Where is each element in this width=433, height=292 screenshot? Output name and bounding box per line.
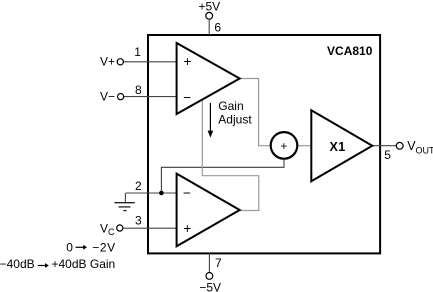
wire X1 output to VOUT terminal pin 5 [372,145,396,147]
svg-text:V+: V+ [100,55,115,69]
terminal pin 8 (V-) [118,94,124,100]
terminal pin 7 (-5V) [206,273,213,280]
ground symbol [114,193,134,211]
svg-text:+: + [183,54,191,69]
gain adjust arrow [208,103,214,138]
label control voltage range 0 to -2V [66,240,116,254]
svg-text:X1: X1 [330,140,346,154]
wire gain-control loop op-amp A2 output to op-amp A1 [202,99,258,211]
svg-text:Gain: Gain [218,99,243,113]
wire ground pin 2 to op-amp A2 [126,192,177,194]
IC boundary box U1 [148,35,380,253]
terminal pin 3 (VC) [117,225,123,231]
svg-text:+40dB Gain: +40dB Gain [52,257,116,271]
svg-text:5: 5 [384,148,391,162]
svg-text:−: − [183,186,191,201]
wire VC pin 3 to op-amp A2 [123,227,176,229]
wire V- input to op-amp A1 [124,96,176,98]
svg-text:+: + [183,221,191,236]
terminal pin 5 (VOUT) [396,142,403,149]
svg-text:VCA810: VCA810 [327,44,373,58]
svg-text:2: 2 [135,179,142,193]
svg-text:−5V: −5V [199,281,221,292]
svg-text:−40dB: −40dB [0,257,35,271]
wire +5V supply stub pin 6 [208,19,210,35]
svg-text:+5V: +5V [198,0,220,14]
terminal pin 1 (V+) [117,59,123,65]
wire pin 2 node to summing junction [161,158,284,193]
svg-text:3: 3 [135,214,142,228]
wire op-amp A1 output to summing junction [240,79,272,146]
op-amp A2 (gain control amplifier) [177,174,240,247]
svg-text:6: 6 [214,21,221,35]
svg-text:0: 0 [66,240,73,254]
svg-text:−: − [183,90,191,105]
svg-text:1: 1 [134,45,141,59]
label gain range -40dB to +40dB [0,257,115,271]
wire -5V supply stub pin 7 [208,253,210,272]
wire V+ input to op-amp A1 [124,61,177,63]
svg-text:Adjust: Adjust [218,113,252,127]
terminal pin 6 (+5V) [206,12,213,19]
junction dot node pin2/ground [159,191,164,196]
svg-text:8: 8 [135,83,142,97]
buffer amplifier X1 [311,110,372,181]
op-amp A1 (input amplifier) [177,43,240,114]
summing junction S1 [271,132,298,159]
svg-text:7: 7 [215,256,222,270]
svg-text:+: + [280,141,287,153]
svg-text:V−: V− [100,89,115,103]
svg-text:−2V: −2V [92,240,116,254]
wire summing junction to buffer X1 [297,145,311,147]
